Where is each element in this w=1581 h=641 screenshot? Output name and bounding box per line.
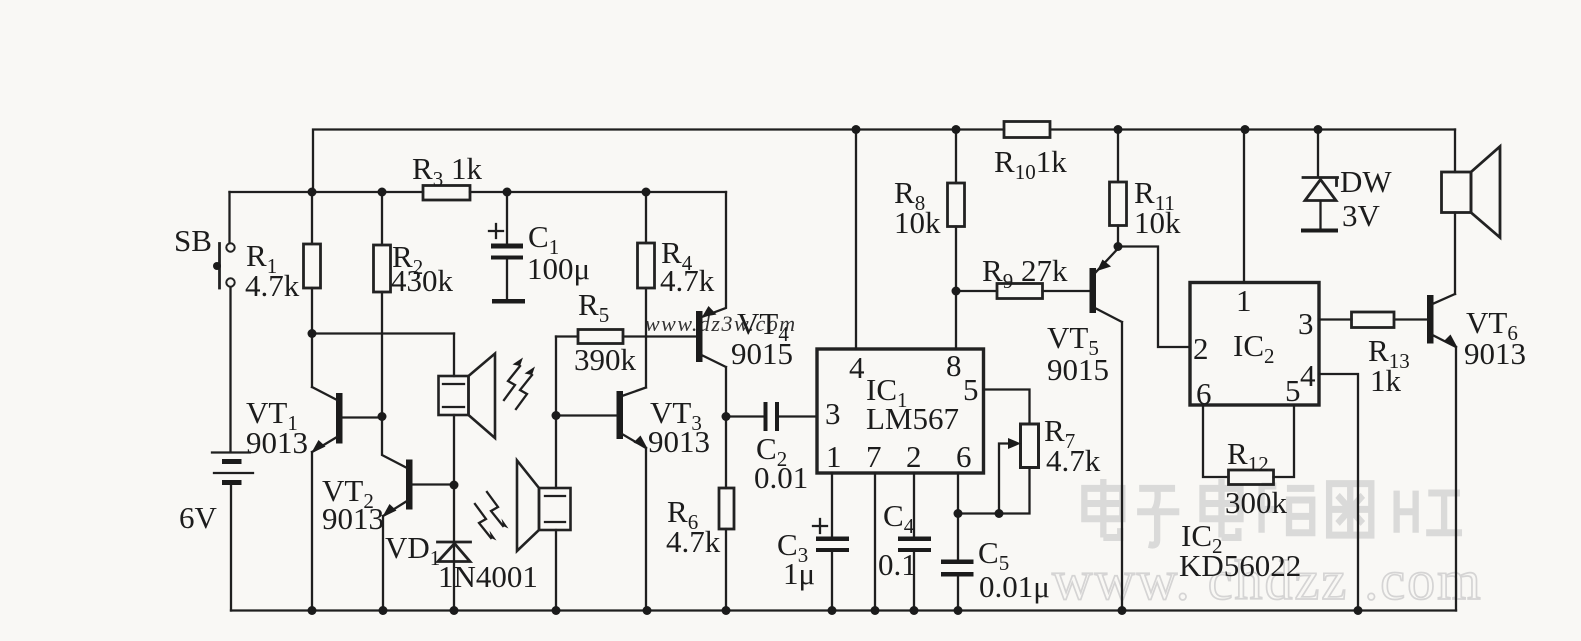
svg-text:2: 2 (1193, 331, 1209, 366)
watermark CJK char 2 (1137, 488, 1179, 545)
svg-text:2: 2 (906, 439, 922, 474)
capacitor C2 (726, 402, 817, 495)
svg-text:6: 6 (956, 439, 972, 474)
zener diode DW 3V (1301, 130, 1392, 234)
wire IC2 pin5 (1274, 405, 1295, 477)
svg-text:5: 5 (1285, 373, 1301, 408)
transistor VT4 (696, 192, 793, 417)
svg-text:9013: 9013 (322, 501, 384, 536)
svg-text:3: 3 (1298, 306, 1314, 341)
svg-text:300k: 300k (1225, 485, 1288, 520)
transistor VT2 (322, 417, 454, 611)
svg-text:9013: 9013 (246, 425, 308, 460)
svg-text:1N4001: 1N4001 (438, 559, 538, 594)
transistor VT5 (1047, 249, 1122, 611)
resistor R12 (1225, 436, 1288, 520)
wire IC1 pin7 to ground (874, 473, 876, 611)
svg-text:1: 1 (1236, 283, 1252, 318)
transistor VT3 (556, 337, 710, 611)
resistor R4 (638, 192, 715, 337)
resistor R8 (894, 130, 965, 350)
transistor VT1 (246, 387, 382, 611)
label IC2 type (1179, 518, 1301, 583)
svg-text:SB: SB (174, 223, 212, 258)
svg-text:4.7k: 4.7k (1046, 443, 1101, 478)
op IC2 KD56022 box (1190, 283, 1319, 412)
resistor R9 (956, 253, 1090, 299)
svg-text:DW: DW (1340, 164, 1392, 199)
wire top supply rail (313, 130, 1455, 193)
watermark CJK char 6 (1397, 491, 1462, 533)
switch SB (174, 192, 235, 288)
svg-text:1μ: 1μ (783, 556, 815, 591)
svg-text:R3 1k: R3 1k (412, 151, 482, 191)
svg-text:0.01: 0.01 (754, 460, 808, 495)
svg-text:6V: 6V (179, 500, 218, 535)
svg-text:4.7k: 4.7k (660, 263, 715, 298)
resistor R10 (994, 122, 1067, 185)
svg-text:100μ: 100μ (527, 251, 590, 286)
watermark CJK char 3 (1203, 479, 1241, 538)
op IC1 LM567 box (817, 348, 984, 474)
svg-text:430k: 430k (391, 263, 454, 298)
svg-text:R9 27k: R9 27k (982, 253, 1068, 293)
wire IC2 pin6 (1203, 405, 1229, 477)
watermark CJK char 4 (1262, 486, 1315, 533)
resistor R1 (245, 192, 321, 334)
svg-text:LM567: LM567 (866, 401, 959, 436)
svg-text:4: 4 (1300, 358, 1316, 393)
svg-text:1: 1 (826, 439, 842, 474)
resistor R2 (374, 192, 454, 417)
watermark CJK char 1 (1084, 479, 1122, 538)
svg-text:KD56022: KD56022 (1179, 548, 1301, 583)
wire VT5 node to IC2 pin2 (1118, 247, 1190, 348)
ultrasonic receiver speaker (475, 337, 571, 611)
transistor VT6 (1394, 294, 1526, 611)
svg-text:9015: 9015 (1047, 352, 1109, 387)
capacitor C1 (489, 192, 590, 304)
resistor R11 (1110, 130, 1182, 247)
loudspeaker (1442, 130, 1501, 295)
svg-text:4: 4 (849, 350, 865, 385)
potentiometer R7 (958, 390, 1101, 514)
svg-text:9013: 9013 (648, 424, 710, 459)
wire IC1 pin4 to rail (855, 130, 857, 350)
resistor R6 (666, 417, 734, 611)
svg-text:9013: 9013 (1464, 336, 1526, 371)
capacitor C5 (941, 473, 1050, 611)
resistor R13 (1319, 312, 1410, 398)
diode VD1 (385, 485, 538, 611)
svg-text:0.1: 0.1 (878, 547, 917, 582)
svg-text:390k: 390k (574, 342, 637, 377)
battery 6V (179, 288, 253, 611)
capacitor C3 (777, 473, 849, 611)
capacitor C4 (878, 473, 931, 611)
svg-text:www.dz3w.com: www.dz3w.com (645, 311, 797, 336)
svg-text:8: 8 (946, 348, 962, 383)
svg-text:10k: 10k (1134, 205, 1181, 240)
wire bottom ground rail (231, 609, 1456, 611)
svg-text:9015: 9015 (731, 336, 793, 371)
resistor R3 (412, 151, 482, 200)
svg-text:7: 7 (866, 439, 882, 474)
svg-text:3: 3 (825, 396, 841, 431)
svg-text:1k: 1k (1370, 363, 1402, 398)
resistor R5 (556, 287, 697, 377)
wire IC2 pin4 to ground rail (1319, 374, 1358, 611)
svg-text:10k: 10k (894, 205, 941, 240)
svg-text:3V: 3V (1342, 198, 1381, 233)
svg-text:4.7k: 4.7k (666, 524, 721, 559)
watermark CJK char 5 (1329, 484, 1371, 535)
ultrasonic transmitter speaker (439, 334, 536, 486)
svg-text:5: 5 (963, 372, 979, 407)
wire IC2 pin1 to rail (1243, 130, 1245, 283)
svg-text:0.01μ: 0.01μ (979, 569, 1050, 604)
node VT1 collector wire (312, 334, 454, 388)
wire second rail (230, 191, 727, 193)
svg-text:4.7k: 4.7k (245, 268, 300, 303)
